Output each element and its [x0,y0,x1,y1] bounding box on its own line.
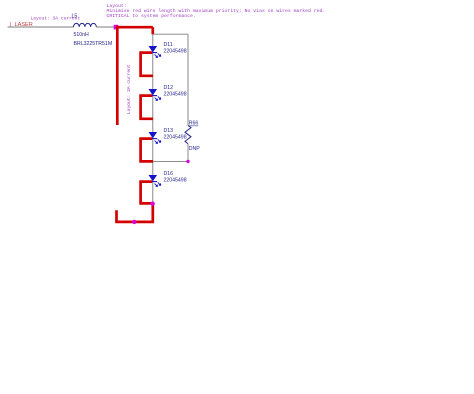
svg-text:Layout: 3A current: Layout: 3A current [126,64,132,114]
svg-text:D11: D11 [164,42,173,48]
svg-text:D13: D13 [164,128,174,134]
svg-text:22045498: 22045498 [164,178,187,184]
wire L5 to red bus [96,26,114,28]
svg-text:CRITICAL to system performance: CRITICAL to system performance. [107,13,196,19]
resistor R66 [185,121,200,162]
wire red stub to D11 [151,27,154,34]
node: pink square junction [114,25,119,30]
svg-text:R66: R66 [189,121,199,127]
node junction D16 bottom [150,202,154,206]
wire top rail to R66 column [153,33,188,35]
wire red bus left vertical [116,27,119,125]
svg-text:D16: D16 [164,171,174,177]
wire D13/D16 junction to R66 [153,160,188,162]
svg-text:D12: D12 [164,85,174,91]
node junction red bottom [132,220,136,224]
svg-text:22045498: 22045498 [164,92,187,98]
wire LED column (thin) [152,34,154,203]
wire red bracket D12 [141,96,153,119]
LED D16 [149,171,187,187]
inductor L5 [74,23,97,27]
svg-text:510nH: 510nH [74,32,90,38]
LED D12 [149,85,187,101]
wire red bracket D11 [141,53,153,76]
wire red bottom loop [117,203,153,222]
LED D13 [149,128,187,144]
LED D11 [149,42,187,58]
layout note top [107,3,326,19]
wire red bracket D16 [141,182,153,204]
svg-text:BRL3225TR51M: BRL3225TR51M [74,41,113,47]
svg-text:22045498: 22045498 [164,135,187,141]
wire from )_LASER to L5 [8,26,74,28]
svg-text:22045498: 22045498 [164,49,187,55]
node junction R66 bottom [186,160,189,163]
svg-text:DNP: DNP [189,146,200,152]
wire red bus top horizontal [116,26,153,29]
svg-text:L5: L5 [72,14,78,20]
wire red bracket D13 [141,139,153,162]
